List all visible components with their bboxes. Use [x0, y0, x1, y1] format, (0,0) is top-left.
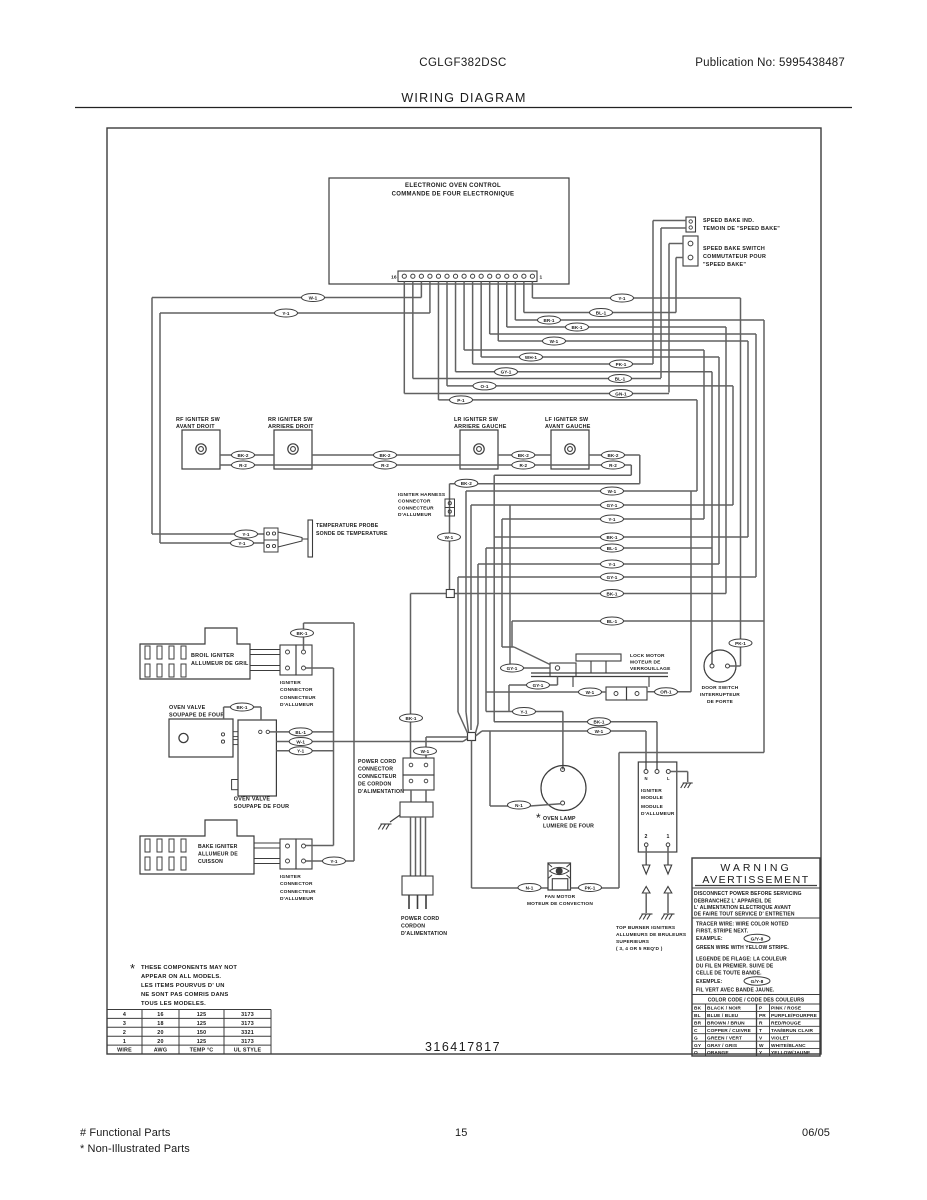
- temperature probe connector: [264, 528, 278, 540]
- wire R-2 bus between igniter switches: [220, 464, 631, 466]
- svg-text:BK-1: BK-1: [405, 716, 416, 721]
- svg-text:EXAMPLE:: EXAMPLE:: [696, 936, 723, 942]
- wire junction right to igniter module N pin: [476, 731, 483, 736]
- svg-text:C: C: [694, 1028, 698, 1034]
- switch LR IGNITER SW box: [460, 430, 498, 469]
- svg-text:125: 125: [197, 1012, 207, 1018]
- wire oven valve W-1 lead: [276, 741, 463, 743]
- svg-text:GY-1: GY-1: [607, 503, 618, 508]
- svg-text:SOUPAPE DE FOUR: SOUPAPE DE FOUR: [234, 804, 289, 810]
- svg-text:BK-1: BK-1: [593, 720, 604, 725]
- wire from EOC pin 1 (Y-1): [531, 282, 533, 299]
- svg-text:RED/ROUGE: RED/ROUGE: [771, 1020, 802, 1026]
- EOC connector pin 13: [428, 274, 432, 278]
- wire label BK-2: [374, 451, 397, 459]
- svg-text:CONNECTEUR: CONNECTEUR: [398, 506, 434, 512]
- svg-text:3173: 3173: [241, 1021, 254, 1027]
- wire lock motor GY-1 drop: [509, 505, 511, 668]
- svg-text:MOTEUR DE: MOTEUR DE: [630, 660, 661, 666]
- wire oven valve Y-1 lead: [276, 750, 333, 752]
- EOC connector pin 11: [445, 274, 449, 278]
- svg-text:BK-2: BK-2: [461, 481, 472, 486]
- svg-text:BK-2: BK-2: [379, 453, 390, 458]
- wire broil connector bottom to BL-1 vertical: [306, 667, 334, 669]
- svg-text:WIRING DIAGRAM: WIRING DIAGRAM: [401, 91, 526, 105]
- wire bake connector top lead: [306, 845, 334, 847]
- svg-text:BLUE / BLEU: BLUE / BLEU: [707, 1013, 739, 1019]
- svg-text:BL-1: BL-1: [607, 619, 618, 624]
- svg-text:BL-1: BL-1: [607, 546, 618, 551]
- svg-text:SUPERIEURS: SUPERIEURS: [616, 939, 650, 945]
- mesh net GY-1 y577: [458, 576, 756, 578]
- switch RR IGNITER SW box: [274, 430, 312, 469]
- svg-text:ALLUMEUR DE: ALLUMEUR DE: [198, 852, 238, 858]
- bake igniter leads: [254, 843, 280, 848]
- power cord plug body: [402, 876, 433, 895]
- svg-text:BL-1: BL-1: [596, 310, 607, 315]
- svg-text:TOP BURNER IGNITERS: TOP BURNER IGNITERS: [616, 925, 676, 931]
- wire module terminal 1 to spark electrode: [667, 847, 669, 866]
- switch LF IGNITER SW box: [551, 430, 589, 469]
- wire from EOC pin 16 (GN-1): [403, 282, 405, 394]
- wire temp probe upper lead: [151, 298, 153, 535]
- bake igniter connector: [280, 839, 296, 869]
- svg-text:DE CORDON: DE CORDON: [358, 782, 392, 788]
- wire junction down to fan motor N-1: [471, 741, 473, 889]
- svg-text:# Functional Parts: # Functional Parts: [80, 1127, 171, 1139]
- wire label R-2: [232, 461, 255, 469]
- svg-text:INTERRUPTEUR: INTERRUPTEUR: [700, 692, 740, 698]
- svg-text:W-1: W-1: [608, 489, 617, 494]
- svg-text:"SPEED BAKE": "SPEED BAKE": [703, 262, 746, 268]
- svg-text:316417817: 316417817: [425, 1040, 501, 1054]
- svg-text:OVEN VALVE: OVEN VALVE: [234, 797, 271, 803]
- wire BK-2 wrap back line y483: [450, 483, 640, 485]
- svg-text:GY-1: GY-1: [607, 575, 618, 580]
- svg-text:BL-1: BL-1: [295, 730, 306, 735]
- svg-text:L' ALIMENTATION ELECTRIQUE: L' ALIMENTATION ELECTRIQUE AVANT: [694, 905, 791, 911]
- mesh net W-1 y491: [466, 490, 697, 492]
- wire label R-2: [602, 461, 625, 469]
- wire label BK-2: [602, 451, 625, 459]
- svg-text:N-1: N-1: [526, 885, 534, 890]
- svg-text:GY-1: GY-1: [533, 683, 544, 688]
- svg-text:ARRIERE GAUCHE: ARRIERE GAUCHE: [454, 424, 507, 430]
- svg-text:15: 15: [455, 1127, 467, 1139]
- wire fan PK drop: [618, 753, 620, 889]
- svg-text:EXEMPLE:: EXEMPLE:: [696, 979, 723, 985]
- svg-text:COPPER / CUIVRE: COPPER / CUIVRE: [707, 1028, 752, 1034]
- svg-text:PINK / ROSE: PINK / ROSE: [771, 1006, 802, 1012]
- svg-text:SOUPAPE DE FOUR: SOUPAPE DE FOUR: [169, 713, 224, 719]
- svg-text:18: 18: [157, 1021, 163, 1027]
- svg-text:PK-1: PK-1: [735, 641, 746, 646]
- svg-text:W-1: W-1: [586, 690, 595, 695]
- lock motor body outline: [572, 677, 574, 688]
- power cord conductors: [410, 817, 412, 876]
- svg-text:Publication No: 5995438487: Publication No: 5995438487: [695, 57, 845, 69]
- wire from EOC pin 5 (W-1): [497, 282, 499, 342]
- svg-text:GY-1: GY-1: [501, 370, 512, 375]
- svg-text:BK-2: BK-2: [607, 453, 618, 458]
- wire module terminal 2 to spark electrode: [645, 847, 647, 866]
- svg-text:AVANT DROIT: AVANT DROIT: [176, 424, 215, 430]
- svg-text:DE PORTE: DE PORTE: [707, 699, 734, 705]
- wire lamp neutral riser: [489, 731, 491, 806]
- switch RF IGNITER SW box: [182, 430, 220, 469]
- svg-text:RF IGNITER SW: RF IGNITER SW: [176, 417, 221, 423]
- svg-text:IGNITER: IGNITER: [280, 874, 301, 880]
- color code header: [692, 994, 820, 996]
- svg-text:BR: BR: [694, 1020, 702, 1026]
- svg-text:N-1: N-1: [515, 803, 523, 808]
- broil igniter heating element: [140, 628, 250, 679]
- lock motor small box: [550, 663, 576, 677]
- EOC connector pin 16: [402, 274, 406, 278]
- wire vertical pin3 net to module feed: [763, 320, 765, 753]
- junction node main splice: [468, 733, 476, 741]
- svg-text:CONNECTOR: CONNECTOR: [280, 687, 313, 693]
- wire from EOC pin 14 (W-1): [420, 282, 422, 298]
- wire lock motor GY-1 feed: [510, 667, 550, 669]
- wire from EOC pin 10 (GY-1): [455, 282, 457, 372]
- wire from node down to power cord connector: [410, 594, 412, 759]
- svg-text:BAKE IGNITER: BAKE IGNITER: [198, 844, 238, 850]
- wire speed bake indicator top lead: [653, 220, 686, 222]
- wire oven lamp top feed Y-1: [486, 711, 563, 713]
- wire lock motor diagonal feed: [502, 646, 514, 648]
- oven lamp DS2 body: [541, 766, 586, 811]
- wire igniter bus wrap-down R-2: [630, 465, 632, 475]
- wire label W-1 on harness vertical: [438, 533, 461, 541]
- svg-text:3321: 3321: [241, 1030, 254, 1036]
- lock motor base bar: [531, 672, 668, 674]
- wire door switch right pin lead: [730, 665, 741, 667]
- svg-text:L: L: [667, 776, 670, 781]
- svg-text:ARRIERE DROIT: ARRIERE DROIT: [268, 424, 314, 430]
- svg-text:PK-1: PK-1: [616, 362, 627, 367]
- svg-text:OVEN LAMP: OVEN LAMP: [543, 816, 576, 822]
- wire speed bake switch top lead: [669, 243, 683, 245]
- svg-text:( 3, 4 OR 5 REQ'D ): ( 3, 4 OR 5 REQ'D ): [616, 946, 663, 952]
- svg-text:RR IGNITER SW: RR IGNITER SW: [268, 417, 313, 423]
- svg-text:POWER CORD: POWER CORD: [401, 916, 439, 922]
- EOC connector pin 14: [419, 274, 423, 278]
- junction node square on BK-1 net: [446, 590, 454, 598]
- fan motor M1 body: [548, 863, 571, 890]
- svg-text:CONNECTOR: CONNECTOR: [398, 499, 431, 505]
- wire module pin1 feed from BL-1 net: [619, 752, 764, 754]
- EOC connector pin 7: [479, 274, 483, 278]
- svg-text:ALLUMEUR DE GRIL: ALLUMEUR DE GRIL: [191, 661, 249, 667]
- oven valve V2 inlet pins: [259, 730, 262, 733]
- svg-text:Y-1: Y-1: [242, 532, 250, 537]
- svg-text:BK-1: BK-1: [236, 705, 247, 710]
- wire power connector to strain relief: [410, 790, 412, 802]
- wire electrode 2 to ground: [645, 893, 647, 913]
- svg-text:SPEED BAKE SWITCH: SPEED BAKE SWITCH: [703, 246, 765, 252]
- wire bake connector bottom lead Y-1: [306, 860, 355, 862]
- wire from EOC pin 9 (unlabelled): [463, 282, 465, 351]
- svg-text:4: 4: [123, 1012, 126, 1018]
- svg-text:VERROUILLAGE: VERROUILLAGE: [630, 666, 671, 672]
- svg-text:2: 2: [645, 834, 648, 840]
- wire module pin2 feed BK-1: [494, 721, 657, 723]
- power cord ground lead: [390, 815, 400, 822]
- svg-text:G: G: [694, 1035, 698, 1041]
- wire speed bake indicator bottom lead: [661, 227, 686, 229]
- svg-text:ALLUMEURS DE BRULEURS: ALLUMEURS DE BRULEURS: [616, 932, 687, 938]
- wire oven valve BL-1 lead: [270, 731, 334, 733]
- mesh net Y-1 y564: [478, 563, 719, 565]
- svg-text:OVEN VALVE: OVEN VALVE: [169, 705, 206, 711]
- svg-text:BL: BL: [694, 1013, 701, 1019]
- svg-text:YELLOW/JAUNE: YELLOW/JAUNE: [771, 1050, 811, 1056]
- lock motor legs: [590, 661, 592, 673]
- svg-text:GN-1: GN-1: [615, 391, 627, 396]
- svg-text:D'ALLUMEUR: D'ALLUMEUR: [280, 702, 314, 708]
- svg-text:O-1: O-1: [481, 384, 489, 389]
- svg-text:BK-1: BK-1: [571, 325, 582, 330]
- wire vertical pin6 net: [755, 334, 757, 577]
- temperature probe body: [278, 532, 302, 547]
- svg-text:BR-1: BR-1: [543, 318, 554, 323]
- svg-text:O: O: [694, 1050, 698, 1056]
- svg-text:PR: PR: [759, 1013, 766, 1019]
- svg-text:W-1: W-1: [309, 295, 318, 300]
- svg-text:DOOR SWITCH: DOOR SWITCH: [702, 685, 739, 691]
- svg-text:W-1: W-1: [296, 739, 305, 744]
- wire from EOC pin 11 (O-1): [446, 282, 448, 386]
- svg-text:125: 125: [197, 1021, 207, 1027]
- svg-text:THESE COMPONENTS MAY NOT: THESE COMPONENTS MAY NOT: [141, 965, 237, 971]
- svg-text:Y-1: Y-1: [608, 562, 616, 567]
- svg-text:1: 1: [667, 834, 670, 840]
- svg-text:PK-1: PK-1: [585, 885, 596, 890]
- oven valve V1 outlet pins: [221, 733, 224, 736]
- svg-text:SPEED BAKE IND.: SPEED BAKE IND.: [703, 218, 754, 224]
- svg-text:TEMPERATURE PROBE: TEMPERATURE PROBE: [316, 523, 379, 529]
- svg-text:AWG: AWG: [154, 1048, 167, 1054]
- svg-text:BLACK / NOIR: BLACK / NOIR: [707, 1006, 741, 1012]
- wire vertical pin10 net down to door switch left pin: [711, 372, 713, 665]
- wire vertical pin9 net: [703, 350, 705, 519]
- svg-text:IGNITER HARNESS: IGNITER HARNESS: [398, 492, 446, 498]
- svg-text:125: 125: [197, 1039, 207, 1045]
- EOC connector pin 5: [496, 274, 500, 278]
- wire from EOC pin 13 (Y-1): [429, 282, 431, 314]
- svg-text:N: N: [644, 776, 647, 781]
- broil igniter leads: [250, 650, 280, 655]
- svg-text:GY-1: GY-1: [507, 666, 518, 671]
- svg-text:FAN MOTOR: FAN MOTOR: [545, 894, 576, 900]
- spark gap electrode down arrow 2: [643, 865, 650, 874]
- wire electrode 1 to ground: [667, 893, 669, 913]
- svg-text:LOCK MOTOR: LOCK MOTOR: [630, 653, 665, 659]
- spark gap electrode down arrow 1: [664, 865, 671, 874]
- svg-text:CGLGF382DSC: CGLGF382DSC: [419, 57, 506, 69]
- svg-text:CONNECTEUR: CONNECTEUR: [358, 774, 397, 780]
- wire temp probe lower lead: [159, 313, 161, 543]
- svg-text:Y-1: Y-1: [520, 709, 528, 714]
- wire from EOC pin 15 (BL-1): [412, 282, 414, 379]
- svg-text:R-2: R-2: [609, 463, 617, 468]
- wire vertical pin5 net: [747, 341, 749, 537]
- wire vertical pin12 net: [696, 400, 698, 491]
- svg-text:LR IGNITER SW: LR IGNITER SW: [454, 417, 499, 423]
- svg-text:D'ALIMENTATION: D'ALIMENTATION: [401, 931, 447, 937]
- svg-text:GREEN WIRE WITH YELLOW STR: GREEN WIRE WITH YELLOW STRIPE.: [696, 945, 789, 951]
- oven valve inter-connector stubs: [233, 732, 238, 737]
- svg-text:*: *: [536, 811, 541, 825]
- wire from EOC pin 6 (unlabelled): [489, 282, 491, 335]
- EOC connector pin 10: [453, 274, 457, 278]
- wire junction left to power cord connector pin: [426, 736, 468, 738]
- wire oven valve BK-1 top lead: [223, 707, 225, 719]
- svg-text:W-1: W-1: [421, 749, 430, 754]
- wire label BK-2: [512, 451, 535, 459]
- svg-text:CONNECTEUR: CONNECTEUR: [280, 889, 316, 895]
- EOC connector pin 15: [411, 274, 415, 278]
- svg-text:W-1: W-1: [595, 729, 604, 734]
- svg-text:R-2: R-2: [239, 463, 247, 468]
- svg-text:SONDE DE TEMPERATURE: SONDE DE TEMPERATURE: [316, 531, 388, 537]
- svg-text:3173: 3173: [241, 1039, 254, 1045]
- oven valve V2 (second) box: [238, 720, 276, 796]
- svg-text:BK-1: BK-1: [296, 631, 307, 636]
- wire vertical pin4 net: [725, 327, 727, 594]
- svg-text:POWER CORD: POWER CORD: [358, 759, 396, 765]
- EOC connector pin 2: [522, 274, 526, 278]
- svg-text:Y-1: Y-1: [282, 311, 290, 316]
- svg-text:WHITE/BLANC: WHITE/BLANC: [771, 1043, 806, 1049]
- svg-text:CORDON: CORDON: [401, 924, 425, 930]
- svg-text:FIL VERT AVEC BANDE JAUNE.: FIL VERT AVEC BANDE JAUNE.: [696, 988, 775, 994]
- svg-text:AVERTISSEMENT: AVERTISSEMENT: [702, 874, 809, 886]
- EOC connector pin 3: [513, 274, 517, 278]
- svg-text:20: 20: [157, 1039, 163, 1045]
- wire junction diagonals from mesh verticals: [458, 712, 468, 733]
- svg-text:GRAY / GRIS: GRAY / GRIS: [707, 1043, 738, 1049]
- svg-text:COMMANDE DE FOUR ELECTRONIQ: COMMANDE DE FOUR ELECTRONIQUE: [392, 192, 515, 198]
- power cord strain relief block: [400, 802, 433, 817]
- wire vertical pin1 net to door switch: [740, 298, 742, 666]
- svg-text:R-2: R-2: [519, 463, 527, 468]
- electronic oven control U1 box: [329, 178, 569, 284]
- speed bake switch S1 box: [683, 236, 698, 266]
- svg-text:Y-1: Y-1: [330, 859, 338, 864]
- wire vertical pin11 net: [732, 386, 734, 505]
- svg-text:TEMOIN DE "SPEED BAKE": TEMOIN DE "SPEED BAKE": [703, 226, 780, 232]
- title underline rule: [75, 107, 852, 109]
- svg-text:2: 2: [123, 1030, 126, 1036]
- svg-text:MODULE: MODULE: [641, 795, 664, 801]
- svg-text:AVANT GAUCHE: AVANT GAUCHE: [545, 424, 591, 430]
- wire from EOC pin 2 (BL-1): [523, 282, 525, 313]
- mesh net BK-1 y537: [494, 536, 748, 538]
- svg-text:LES ITEMS POURVUS D' UN: LES ITEMS POURVUS D' UN: [141, 983, 225, 989]
- speed bake indicator DS1 box: [686, 217, 696, 232]
- svg-text:Y-1: Y-1: [297, 749, 305, 754]
- warning exemple oval G/Y-8: [744, 977, 770, 985]
- mesh net GY-1 y505: [471, 504, 733, 506]
- svg-text:NE SONT PAS COMRIS DANS: NE SONT PAS COMRIS DANS: [141, 992, 228, 998]
- svg-text:BK-2: BK-2: [518, 453, 529, 458]
- svg-text:VIOLET: VIOLET: [771, 1035, 789, 1041]
- svg-text:R-2: R-2: [381, 463, 389, 468]
- warning example oval G/Y-8: [744, 934, 770, 942]
- svg-text:BK: BK: [694, 1006, 702, 1012]
- svg-text:BK-2: BK-2: [237, 453, 248, 458]
- spark gap electrode up arrow 2: [642, 887, 650, 894]
- svg-text:TAN/BRUN CLAIR: TAN/BRUN CLAIR: [771, 1028, 814, 1034]
- svg-text:CUISSON: CUISSON: [198, 859, 223, 865]
- warning title underline: [695, 885, 817, 887]
- fan motor eye symbol: [550, 867, 570, 874]
- svg-text:OR-1: OR-1: [660, 690, 672, 695]
- svg-text:16: 16: [391, 275, 397, 281]
- warning box frame: [692, 858, 820, 1056]
- svg-text:*: *: [130, 961, 135, 976]
- svg-text:W-1: W-1: [550, 339, 559, 344]
- svg-text:APPEAR ON ALL MODELS.: APPEAR ON ALL MODELS.: [141, 974, 221, 980]
- spark gap electrode up arrow 1: [664, 887, 672, 894]
- svg-text:Y-1: Y-1: [618, 296, 626, 301]
- diagram border frame: [107, 128, 821, 1054]
- svg-text:TRACER WIRE: WIRE COLOR: TRACER WIRE: WIRE COLOR NOTED: [696, 922, 789, 928]
- wire from EOC pin 4 (BK-1): [506, 282, 508, 328]
- svg-text:R: R: [759, 1020, 763, 1026]
- power cord plug prongs: [408, 895, 410, 909]
- wire vertical x354 (bake/broil net): [353, 623, 355, 861]
- svg-text:150: 150: [197, 1030, 207, 1036]
- svg-text:PURPLE/POURPRE: PURPLE/POURPRE: [771, 1013, 818, 1019]
- svg-text:MOTEUR DE CONVECTION: MOTEUR DE CONVECTION: [527, 901, 593, 907]
- svg-text:3: 3: [123, 1021, 126, 1027]
- svg-text:D'ALLUMEUR: D'ALLUMEUR: [398, 512, 432, 518]
- svg-text:IGNITER: IGNITER: [641, 788, 662, 794]
- color code table column rules: [705, 1004, 707, 1056]
- fan motor base block: [552, 879, 568, 890]
- wire fan motor right PK-1 lead: [571, 887, 620, 889]
- wire igniter harness vertical: [449, 484, 451, 590]
- svg-text:CONNECTOR: CONNECTOR: [280, 881, 313, 887]
- svg-text:G/Y-8: G/Y-8: [751, 979, 764, 985]
- mesh net BL-1 y548: [486, 547, 712, 549]
- svg-text:ORANGE: ORANGE: [707, 1050, 729, 1056]
- svg-text:GREEN / VERT: GREEN / VERT: [707, 1035, 742, 1041]
- svg-text:D'ALLUMEUR: D'ALLUMEUR: [280, 896, 314, 902]
- svg-text:ELECTRONIC OVEN CONTROL: ELECTRONIC OVEN CONTROL: [405, 183, 501, 189]
- svg-text:* Non-Illustrated Parts: * Non-Illustrated Parts: [80, 1143, 190, 1155]
- svg-text:COMMUTATEUR POUR: COMMUTATEUR POUR: [703, 254, 766, 260]
- svg-text:LUMIERE DE FOUR: LUMIERE DE FOUR: [543, 824, 594, 830]
- svg-text:DE FAIRE TOUT SERVICE D': DE FAIRE TOUT SERVICE D' ENTRETIEN: [694, 912, 795, 918]
- lock motor assembly top bar: [576, 654, 621, 661]
- lock motor connector: [606, 687, 627, 700]
- svg-text:P-1: P-1: [457, 398, 465, 403]
- wire broil connector top to BK-1 net: [303, 623, 305, 650]
- oven valve V1 box: [169, 719, 233, 757]
- svg-text:1: 1: [123, 1039, 126, 1045]
- mesh net Y-1 y519: [502, 518, 704, 520]
- warning divider: [692, 917, 820, 919]
- wire BK-2 bus between igniter switches: [220, 454, 274, 456]
- svg-text:D'ALIMENTATION: D'ALIMENTATION: [358, 789, 404, 795]
- svg-text:LEGENDE DE FILAGE: LA CO: LEGENDE DE FILAGE: LA COULEUR: [696, 957, 787, 963]
- svg-text:CONNECTOR: CONNECTOR: [358, 767, 393, 773]
- svg-text:D'ALLUMEUR: D'ALLUMEUR: [641, 811, 675, 817]
